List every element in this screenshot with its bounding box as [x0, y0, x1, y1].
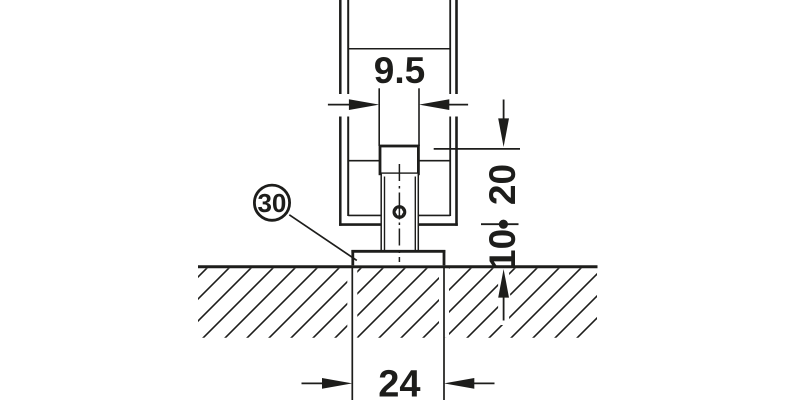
9.5 extension line right [418, 88, 420, 146]
9.5 dim line right with arrow [449, 104, 469, 106]
callout circle 30 [254, 185, 289, 220]
base plate right edge [443, 250, 446, 265]
profile inner bottom line right [418, 214, 450, 216]
white halo for 10-dim up arrow [498, 266, 509, 325]
20 dim down arrow [503, 100, 505, 121]
svg-text:9.5: 9.5 [374, 50, 425, 91]
guide cap block [380, 146, 418, 174]
white halo for right 24-extension line [439, 266, 449, 340]
guide body inner right line [414, 177, 416, 251]
guide body outer left line [380, 174, 382, 251]
9.5 dim line left with arrow [328, 104, 350, 106]
callout leader line [289, 215, 357, 261]
door profile inner right wall [449, 0, 451, 216]
svg-text:20: 20 [482, 164, 523, 205]
20 leader line at cap top level [434, 148, 520, 150]
24 extension line left [351, 267, 353, 400]
door profile outer right wall [455, 0, 458, 226]
base plate fill [354, 253, 443, 266]
door profile inner left wall [347, 0, 349, 216]
svg-text:10: 10 [482, 229, 523, 270]
guide body inner left line [384, 177, 386, 251]
white halo for left 24-extension line [347, 266, 357, 340]
profile mid horizontal line right [418, 160, 450, 162]
floor line [198, 265, 598, 268]
vertical centerline (dash-dot) [398, 164, 400, 262]
guide body fill [382, 174, 418, 251]
profile inner bottom line left [348, 214, 381, 216]
door profile outer left wall (gap at 9.5 dim line) [339, 0, 342, 226]
10 upper terminator line with dot [481, 223, 519, 225]
guide body outer right line [417, 174, 419, 251]
base plate top line [351, 250, 445, 253]
profile mid horizontal line left [348, 160, 380, 162]
adjustment screw circle [394, 206, 406, 218]
svg-text:30: 30 [257, 188, 286, 218]
24 extension line right [443, 267, 445, 400]
24 dim line left with arrow [302, 382, 325, 384]
profile top inner horizontal line [348, 48, 450, 50]
svg-text:24: 24 [378, 363, 420, 400]
10 dim up arrow below floor [503, 295, 505, 321]
hex socket symbol [395, 208, 405, 216]
profile outer bottom line right [418, 223, 458, 226]
base plate left edge [351, 250, 354, 265]
24 dim line right with arrow [473, 382, 495, 384]
floor hatching [127, 258, 657, 348]
9.5 extension line left [378, 88, 380, 146]
profile outer bottom line left [339, 223, 381, 226]
